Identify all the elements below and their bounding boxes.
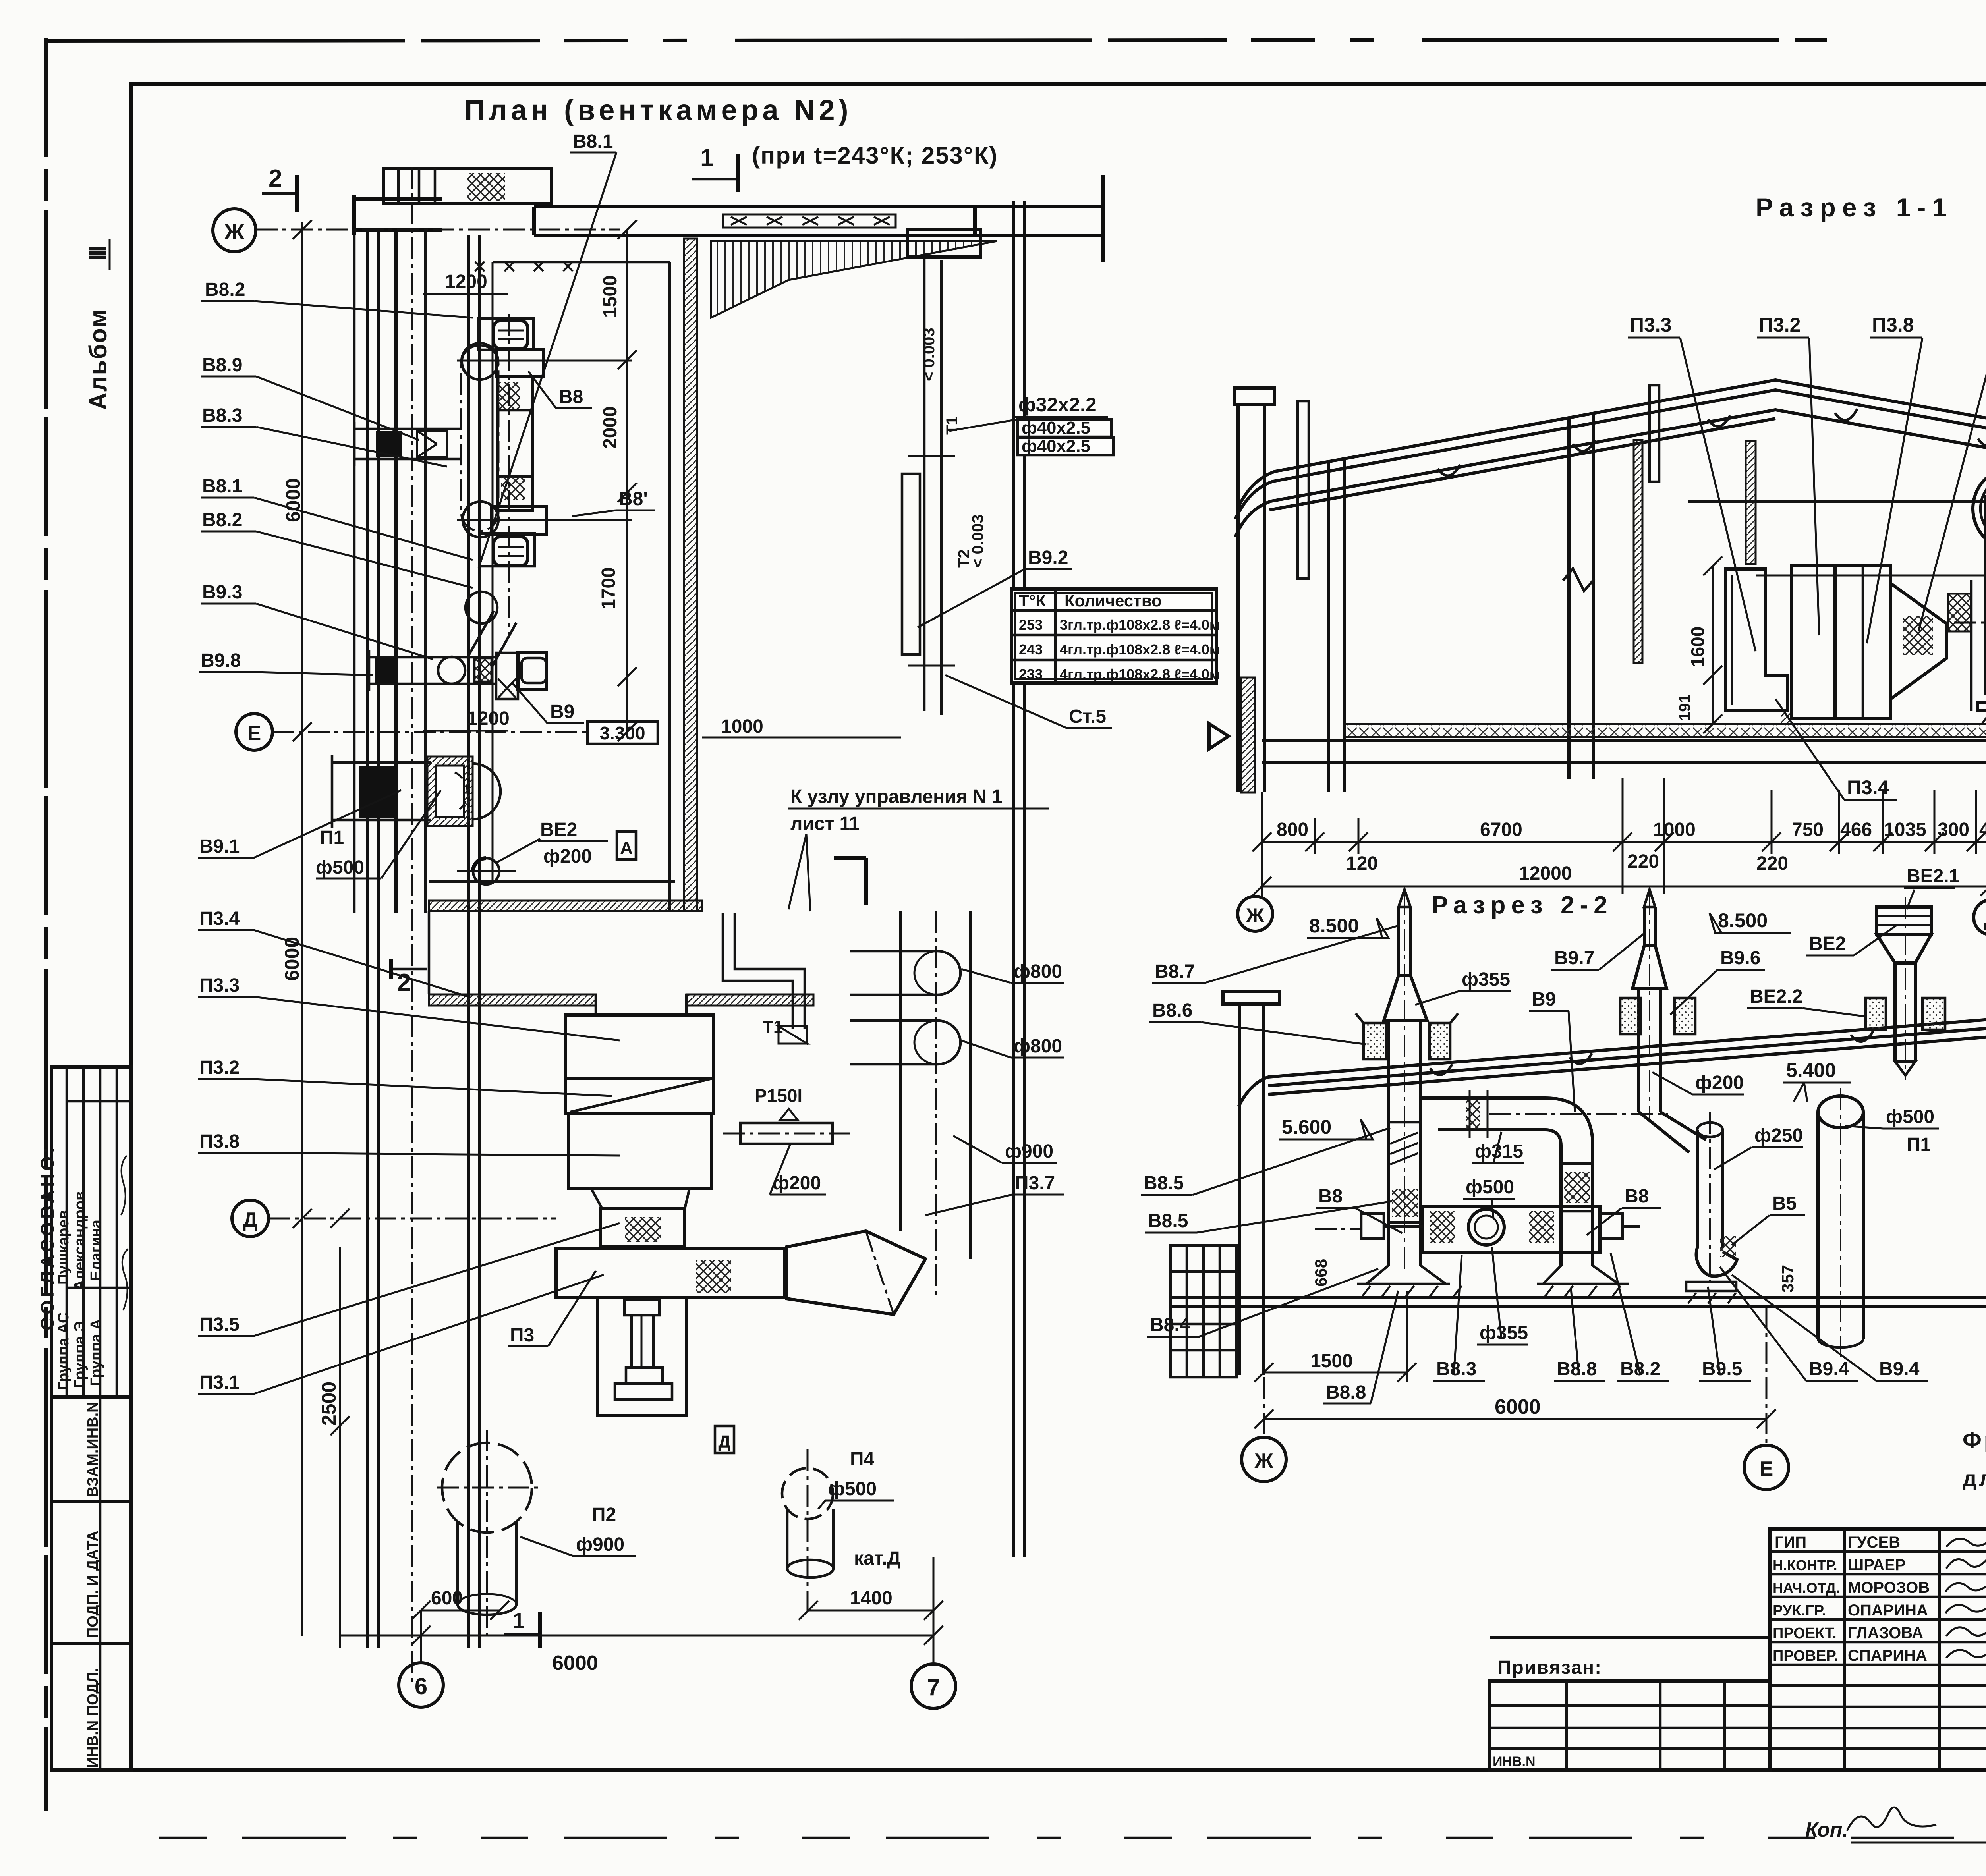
svg-text:357: 357 xyxy=(1778,1265,1797,1293)
svg-text:В8.1: В8.1 xyxy=(573,131,613,152)
svg-text:В8.2: В8.2 xyxy=(205,279,245,300)
svg-text:300: 300 xyxy=(1938,819,1969,840)
svg-text:В8.5: В8.5 xyxy=(1144,1173,1184,1194)
svg-text:ПРОЕКТ.: ПРОЕКТ. xyxy=(1773,1625,1837,1642)
svg-text:ф800: ф800 xyxy=(1014,1036,1062,1057)
svg-text:В9.7: В9.7 xyxy=(1554,948,1594,969)
svg-text:Р150I: Р150I xyxy=(755,1085,802,1106)
svg-text:В8.2: В8.2 xyxy=(1620,1359,1660,1380)
svg-text:ф355: ф355 xyxy=(1462,969,1510,990)
svg-text:кат.Д: кат.Д xyxy=(854,1548,901,1569)
svg-text:ПРОВЕР.: ПРОВЕР. xyxy=(1773,1648,1838,1664)
svg-text:П3: П3 xyxy=(510,1325,534,1346)
svg-text:В8.3: В8.3 xyxy=(1436,1359,1476,1380)
svg-text:ПОДП. И ДАТА: ПОДП. И ДАТА xyxy=(85,1531,101,1638)
svg-text:243: 243 xyxy=(1019,641,1043,658)
svg-text:В8.5: В8.5 xyxy=(1148,1210,1188,1231)
svg-text:1035: 1035 xyxy=(1884,819,1926,840)
svg-text:В8.4: В8.4 xyxy=(1150,1314,1190,1336)
svg-text:лист 11: лист 11 xyxy=(790,813,860,834)
svg-text:Ж: Ж xyxy=(1254,1449,1274,1473)
svg-text:1500: 1500 xyxy=(1310,1351,1353,1372)
svg-text:П3.2: П3.2 xyxy=(1759,314,1801,336)
svg-text:ВЕ2: ВЕ2 xyxy=(1809,933,1846,954)
svg-text:5.400: 5.400 xyxy=(1786,1059,1836,1081)
svg-text:3гл.тр.ф108х2.8 ℓ=4.0м: 3гл.тр.ф108х2.8 ℓ=4.0м xyxy=(1060,617,1220,633)
svg-text:ф200: ф200 xyxy=(543,846,592,867)
svg-text:ф500: ф500 xyxy=(316,857,364,878)
svg-text:СПАРИНА: СПАРИНА xyxy=(1848,1647,1927,1664)
svg-text:12000: 12000 xyxy=(1519,863,1572,884)
svg-text:6: 6 xyxy=(415,1673,427,1699)
svg-text:В8.7: В8.7 xyxy=(1155,961,1195,982)
svg-text:ГЛАЗОВА: ГЛАЗОВА xyxy=(1848,1624,1923,1642)
svg-text:120: 120 xyxy=(1346,853,1378,874)
svg-text:В8.8: В8.8 xyxy=(1326,1382,1366,1403)
svg-text:В9.6: В9.6 xyxy=(1720,948,1760,969)
svg-text:Д: Д xyxy=(243,1208,257,1231)
svg-text:Привязан:: Привязан: xyxy=(1497,1657,1602,1678)
svg-text:В9.4: В9.4 xyxy=(1809,1359,1849,1380)
svg-text:Ж: Ж xyxy=(224,219,245,244)
svg-text:6700: 6700 xyxy=(1480,819,1522,840)
svg-text:Т°К: Т°К xyxy=(1019,591,1046,610)
svg-text:Д: Д xyxy=(718,1432,730,1451)
svg-text:Коп.: Коп. xyxy=(1805,1818,1848,1841)
svg-text:Е: Е xyxy=(1760,1457,1773,1480)
svg-text:800: 800 xyxy=(1277,819,1308,840)
svg-text:ф900: ф900 xyxy=(576,1534,624,1555)
svg-text:3.300: 3.300 xyxy=(599,723,645,743)
svg-text:< 0.003: < 0.003 xyxy=(920,328,938,381)
svg-text:Разрез 2-2: Разрез 2-2 xyxy=(1432,892,1613,919)
svg-text:ИНВ.N: ИНВ.N xyxy=(1493,1754,1536,1769)
svg-text:III: III xyxy=(84,246,111,261)
svg-text:П3.2: П3.2 xyxy=(199,1057,240,1078)
svg-text:В8: В8 xyxy=(559,386,583,407)
svg-text:600: 600 xyxy=(431,1588,463,1609)
svg-text:В9.8: В9.8 xyxy=(201,650,241,671)
svg-text:П3.8: П3.8 xyxy=(1872,314,1914,336)
svg-text:Пушкарев: Пушкарев xyxy=(55,1210,72,1285)
svg-text:Группа АС: Группа АС xyxy=(55,1312,72,1390)
svg-text:ф800: ф800 xyxy=(1014,961,1062,982)
svg-text:П3.3: П3.3 xyxy=(1630,314,1671,336)
svg-text:В8.9: В8.9 xyxy=(202,355,242,376)
svg-text:Альбом: Альбом xyxy=(85,309,112,410)
svg-text:Фрагмент плана при t н= 233: Фрагмент плана при t н= 233°К (-40°С) xyxy=(1963,1427,1986,1452)
svg-text:Разрез 1-1: Разрез 1-1 xyxy=(1756,193,1953,222)
svg-text:План (венткамера N2): План (венткамера N2) xyxy=(464,95,852,126)
svg-text:220: 220 xyxy=(1756,853,1788,874)
svg-text:Количество: Количество xyxy=(1064,591,1162,610)
svg-text:Елагина: Елагина xyxy=(88,1219,104,1281)
svg-text:Д: Д xyxy=(1984,908,1986,930)
svg-text:РУК.ГР.: РУК.ГР. xyxy=(1773,1602,1826,1619)
svg-text:ВЕ2.2: ВЕ2.2 xyxy=(1750,986,1802,1007)
svg-text:ф355: ф355 xyxy=(1480,1322,1528,1343)
svg-text:ШРАЕР: ШРАЕР xyxy=(1848,1556,1906,1574)
svg-text:В8.2: В8.2 xyxy=(202,510,242,531)
svg-text:1000: 1000 xyxy=(721,716,763,737)
svg-text:В9.1: В9.1 xyxy=(199,836,240,857)
svg-text:К узлу управления N 1: К узлу управления N 1 xyxy=(790,786,1002,807)
svg-text:2: 2 xyxy=(397,969,411,996)
svg-text:ф250: ф250 xyxy=(1754,1125,1803,1146)
svg-text:Группа А: Группа А xyxy=(88,1319,104,1386)
svg-text:ОПАРИНА: ОПАРИНА xyxy=(1848,1602,1928,1619)
svg-text:П3.7: П3.7 xyxy=(1015,1173,1055,1194)
svg-text:Ж: Ж xyxy=(1246,904,1264,926)
svg-text:В8: В8 xyxy=(1318,1186,1343,1207)
svg-text:< 0.003: < 0.003 xyxy=(969,514,987,568)
svg-text:П3.8: П3.8 xyxy=(199,1131,240,1152)
svg-text:Е: Е xyxy=(247,722,261,745)
svg-text:В8.3: В8.3 xyxy=(202,405,242,426)
svg-text:1: 1 xyxy=(700,144,714,172)
svg-text:1700: 1700 xyxy=(598,567,619,610)
svg-text:П1: П1 xyxy=(1907,1134,1931,1155)
svg-text:Александров: Александров xyxy=(71,1191,88,1291)
svg-text:для П3 смотреть лист 19.: для П3 смотреть лист 19. xyxy=(1963,1466,1986,1491)
svg-text:П3.3: П3.3 xyxy=(199,975,240,996)
svg-text:В9: В9 xyxy=(1532,989,1556,1010)
svg-text:ВЗАМ.ИНВ.N: ВЗАМ.ИНВ.N xyxy=(85,1401,101,1497)
svg-text:1600: 1600 xyxy=(1687,627,1708,667)
svg-text:6000: 6000 xyxy=(1495,1395,1541,1419)
svg-text:2: 2 xyxy=(269,165,282,192)
svg-text:8.500: 8.500 xyxy=(1309,915,1359,937)
svg-text:ф200: ф200 xyxy=(773,1173,821,1194)
svg-text:В8': В8' xyxy=(619,488,648,510)
svg-text:8.500: 8.500 xyxy=(1718,909,1768,932)
svg-text:А: А xyxy=(620,838,633,858)
svg-text:750: 750 xyxy=(1792,819,1824,840)
svg-text:ф500: ф500 xyxy=(1466,1177,1514,1198)
svg-text:ВЕ2.1: ВЕ2.1 xyxy=(1907,866,1959,887)
svg-text:Группа Э: Группа Э xyxy=(71,1321,88,1388)
svg-text:ВЕ2: ВЕ2 xyxy=(540,819,577,840)
svg-text:П3.4: П3.4 xyxy=(199,908,240,929)
svg-text:ф500: ф500 xyxy=(828,1478,877,1500)
svg-text:253: 253 xyxy=(1019,617,1043,633)
svg-text:(при t=243°К; 253°К): (при t=243°К; 253°К) xyxy=(752,142,998,169)
svg-text:1400: 1400 xyxy=(850,1588,893,1609)
svg-text:2500: 2500 xyxy=(318,1382,340,1426)
svg-text:СОГЛАСОВАНО:: СОГЛАСОВАНО: xyxy=(37,1144,58,1330)
svg-text:1500: 1500 xyxy=(600,275,621,318)
svg-text:В9.4: В9.4 xyxy=(1879,1359,1920,1380)
svg-text:В9: В9 xyxy=(550,701,574,722)
svg-text:В9.2: В9.2 xyxy=(1028,547,1068,568)
svg-text:ф500: ф500 xyxy=(1886,1106,1934,1127)
svg-text:1: 1 xyxy=(512,1608,525,1633)
svg-text:ИНВ.N ПОДЛ.: ИНВ.N ПОДЛ. xyxy=(85,1668,101,1768)
svg-text:191: 191 xyxy=(1676,694,1694,721)
svg-text:Н.КОНТР.: Н.КОНТР. xyxy=(1773,1557,1837,1573)
svg-text:ГУСЕВ: ГУСЕВ xyxy=(1848,1534,1900,1551)
svg-text:ф200: ф200 xyxy=(1695,1072,1744,1093)
svg-text:ГИП: ГИП xyxy=(1775,1534,1806,1551)
svg-text:1000: 1000 xyxy=(1653,819,1696,840)
svg-text:4гл.тр.ф108х2.8 ℓ=4.0м: 4гл.тр.ф108х2.8 ℓ=4.0м xyxy=(1060,641,1220,658)
svg-text:1200: 1200 xyxy=(467,708,510,729)
svg-text:2000: 2000 xyxy=(600,406,621,449)
svg-text:4гл.тр.ф108х2.8 ℓ=4.0м: 4гл.тр.ф108х2.8 ℓ=4.0м xyxy=(1060,666,1220,682)
svg-text:ф32х2.2: ф32х2.2 xyxy=(1018,394,1097,416)
svg-text:233: 233 xyxy=(1019,666,1043,682)
svg-text:ф40х2.5: ф40х2.5 xyxy=(1022,418,1090,438)
svg-text:МОРОЗОВ: МОРОЗОВ xyxy=(1848,1579,1930,1596)
svg-text:НАЧ.ОТД.: НАЧ.ОТД. xyxy=(1773,1580,1840,1596)
svg-text:Ст.5: Ст.5 xyxy=(1069,706,1106,727)
svg-text:В9.5: В9.5 xyxy=(1702,1359,1742,1380)
svg-text:Т1: Т1 xyxy=(943,416,961,435)
svg-text:П4: П4 xyxy=(850,1449,875,1470)
svg-text:668: 668 xyxy=(1312,1259,1330,1287)
svg-text:6000: 6000 xyxy=(552,1652,598,1675)
svg-text:В8.1: В8.1 xyxy=(202,476,242,497)
svg-text:ф900: ф900 xyxy=(1005,1141,1053,1162)
svg-text:6000: 6000 xyxy=(282,478,304,522)
svg-text:5.600: 5.600 xyxy=(1282,1116,1331,1138)
svg-text:П2: П2 xyxy=(592,1504,616,1525)
svg-text:7: 7 xyxy=(927,1675,940,1700)
svg-text:П3.5: П3.5 xyxy=(199,1314,240,1335)
svg-text:В8.6: В8.6 xyxy=(1152,1000,1192,1021)
svg-text:В5: В5 xyxy=(1772,1193,1797,1214)
svg-text:В8: В8 xyxy=(1625,1186,1649,1207)
svg-text:ф40х2.5: ф40х2.5 xyxy=(1022,436,1090,456)
svg-text:В9.3: В9.3 xyxy=(202,582,242,603)
svg-text:П3.1: П3.1 xyxy=(199,1372,240,1393)
svg-text:П1: П1 xyxy=(320,827,344,848)
svg-text:1200: 1200 xyxy=(445,271,487,292)
svg-text:220: 220 xyxy=(1627,851,1659,872)
